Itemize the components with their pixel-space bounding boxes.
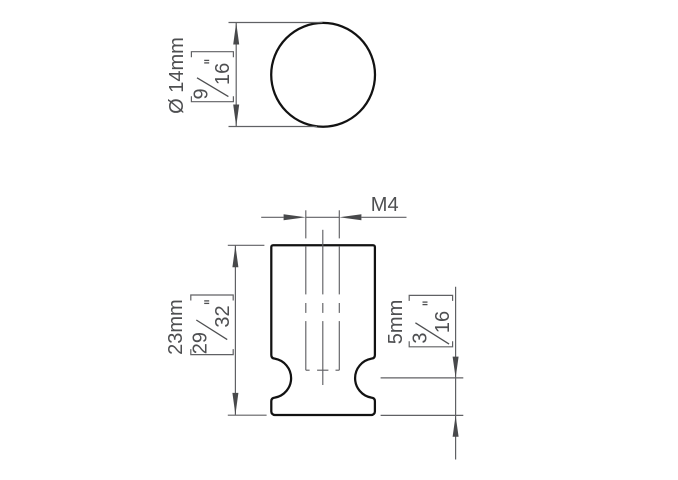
svg-text:23mm: 23mm <box>165 299 187 355</box>
dimension line diameter <box>235 23 237 127</box>
svg-text:M4: M4 <box>371 194 399 216</box>
bracket left <box>191 96 233 102</box>
label bracket 29/32 inch <box>190 295 235 355</box>
svg-text:16: 16 <box>212 63 234 85</box>
23mm extension bottom <box>228 414 267 416</box>
arrowhead M4 right <box>339 214 361 220</box>
fraction slash <box>196 320 227 340</box>
fraction slash <box>415 323 449 344</box>
inch double prime <box>204 62 209 64</box>
svg-text:16: 16 <box>432 311 454 333</box>
svg-text:Ø 14mm: Ø 14mm <box>166 37 188 114</box>
svg-text:3: 3 <box>409 332 431 343</box>
label diameter 14mm <box>166 37 188 114</box>
5mm dimension line <box>455 287 457 460</box>
svg-text:32: 32 <box>212 305 234 327</box>
5mm extension upper <box>381 377 464 379</box>
arrowhead 5mm down <box>453 357 459 378</box>
label bracket 3/16 inch <box>409 295 454 346</box>
M4 dimension line <box>261 216 406 218</box>
bracket right <box>191 295 233 301</box>
arrowhead M4 left <box>284 214 306 220</box>
center line <box>317 230 328 385</box>
bracket right <box>191 52 233 58</box>
arrowhead up <box>233 23 239 45</box>
extension line bottom tangent <box>229 126 318 128</box>
thread line right <box>336 210 340 370</box>
5mm extension lower <box>381 414 464 416</box>
bracket left <box>409 341 452 347</box>
label 5mm <box>385 300 407 344</box>
23mm dimension line <box>234 245 236 415</box>
23mm extension top <box>228 244 265 246</box>
inch double prime <box>204 302 209 304</box>
extension line top tangent <box>229 22 323 24</box>
svg-text:5mm: 5mm <box>385 300 407 344</box>
arrowhead 23mm up <box>232 245 238 267</box>
thread line left <box>306 210 310 370</box>
arrowhead 5mm up <box>453 415 459 436</box>
label 23mm <box>165 299 187 355</box>
arrowhead down <box>233 105 239 127</box>
svg-text:29: 29 <box>190 332 212 354</box>
knob outline <box>271 245 375 415</box>
knob top view circle <box>271 23 375 127</box>
bracket right <box>409 295 452 301</box>
arrowhead 23mm down <box>232 393 238 415</box>
label bracket 9/16 inch <box>190 52 234 102</box>
bracket left <box>191 349 233 355</box>
svg-text:9: 9 <box>190 88 212 99</box>
inch double prime <box>423 304 428 306</box>
fraction slash <box>197 78 228 97</box>
